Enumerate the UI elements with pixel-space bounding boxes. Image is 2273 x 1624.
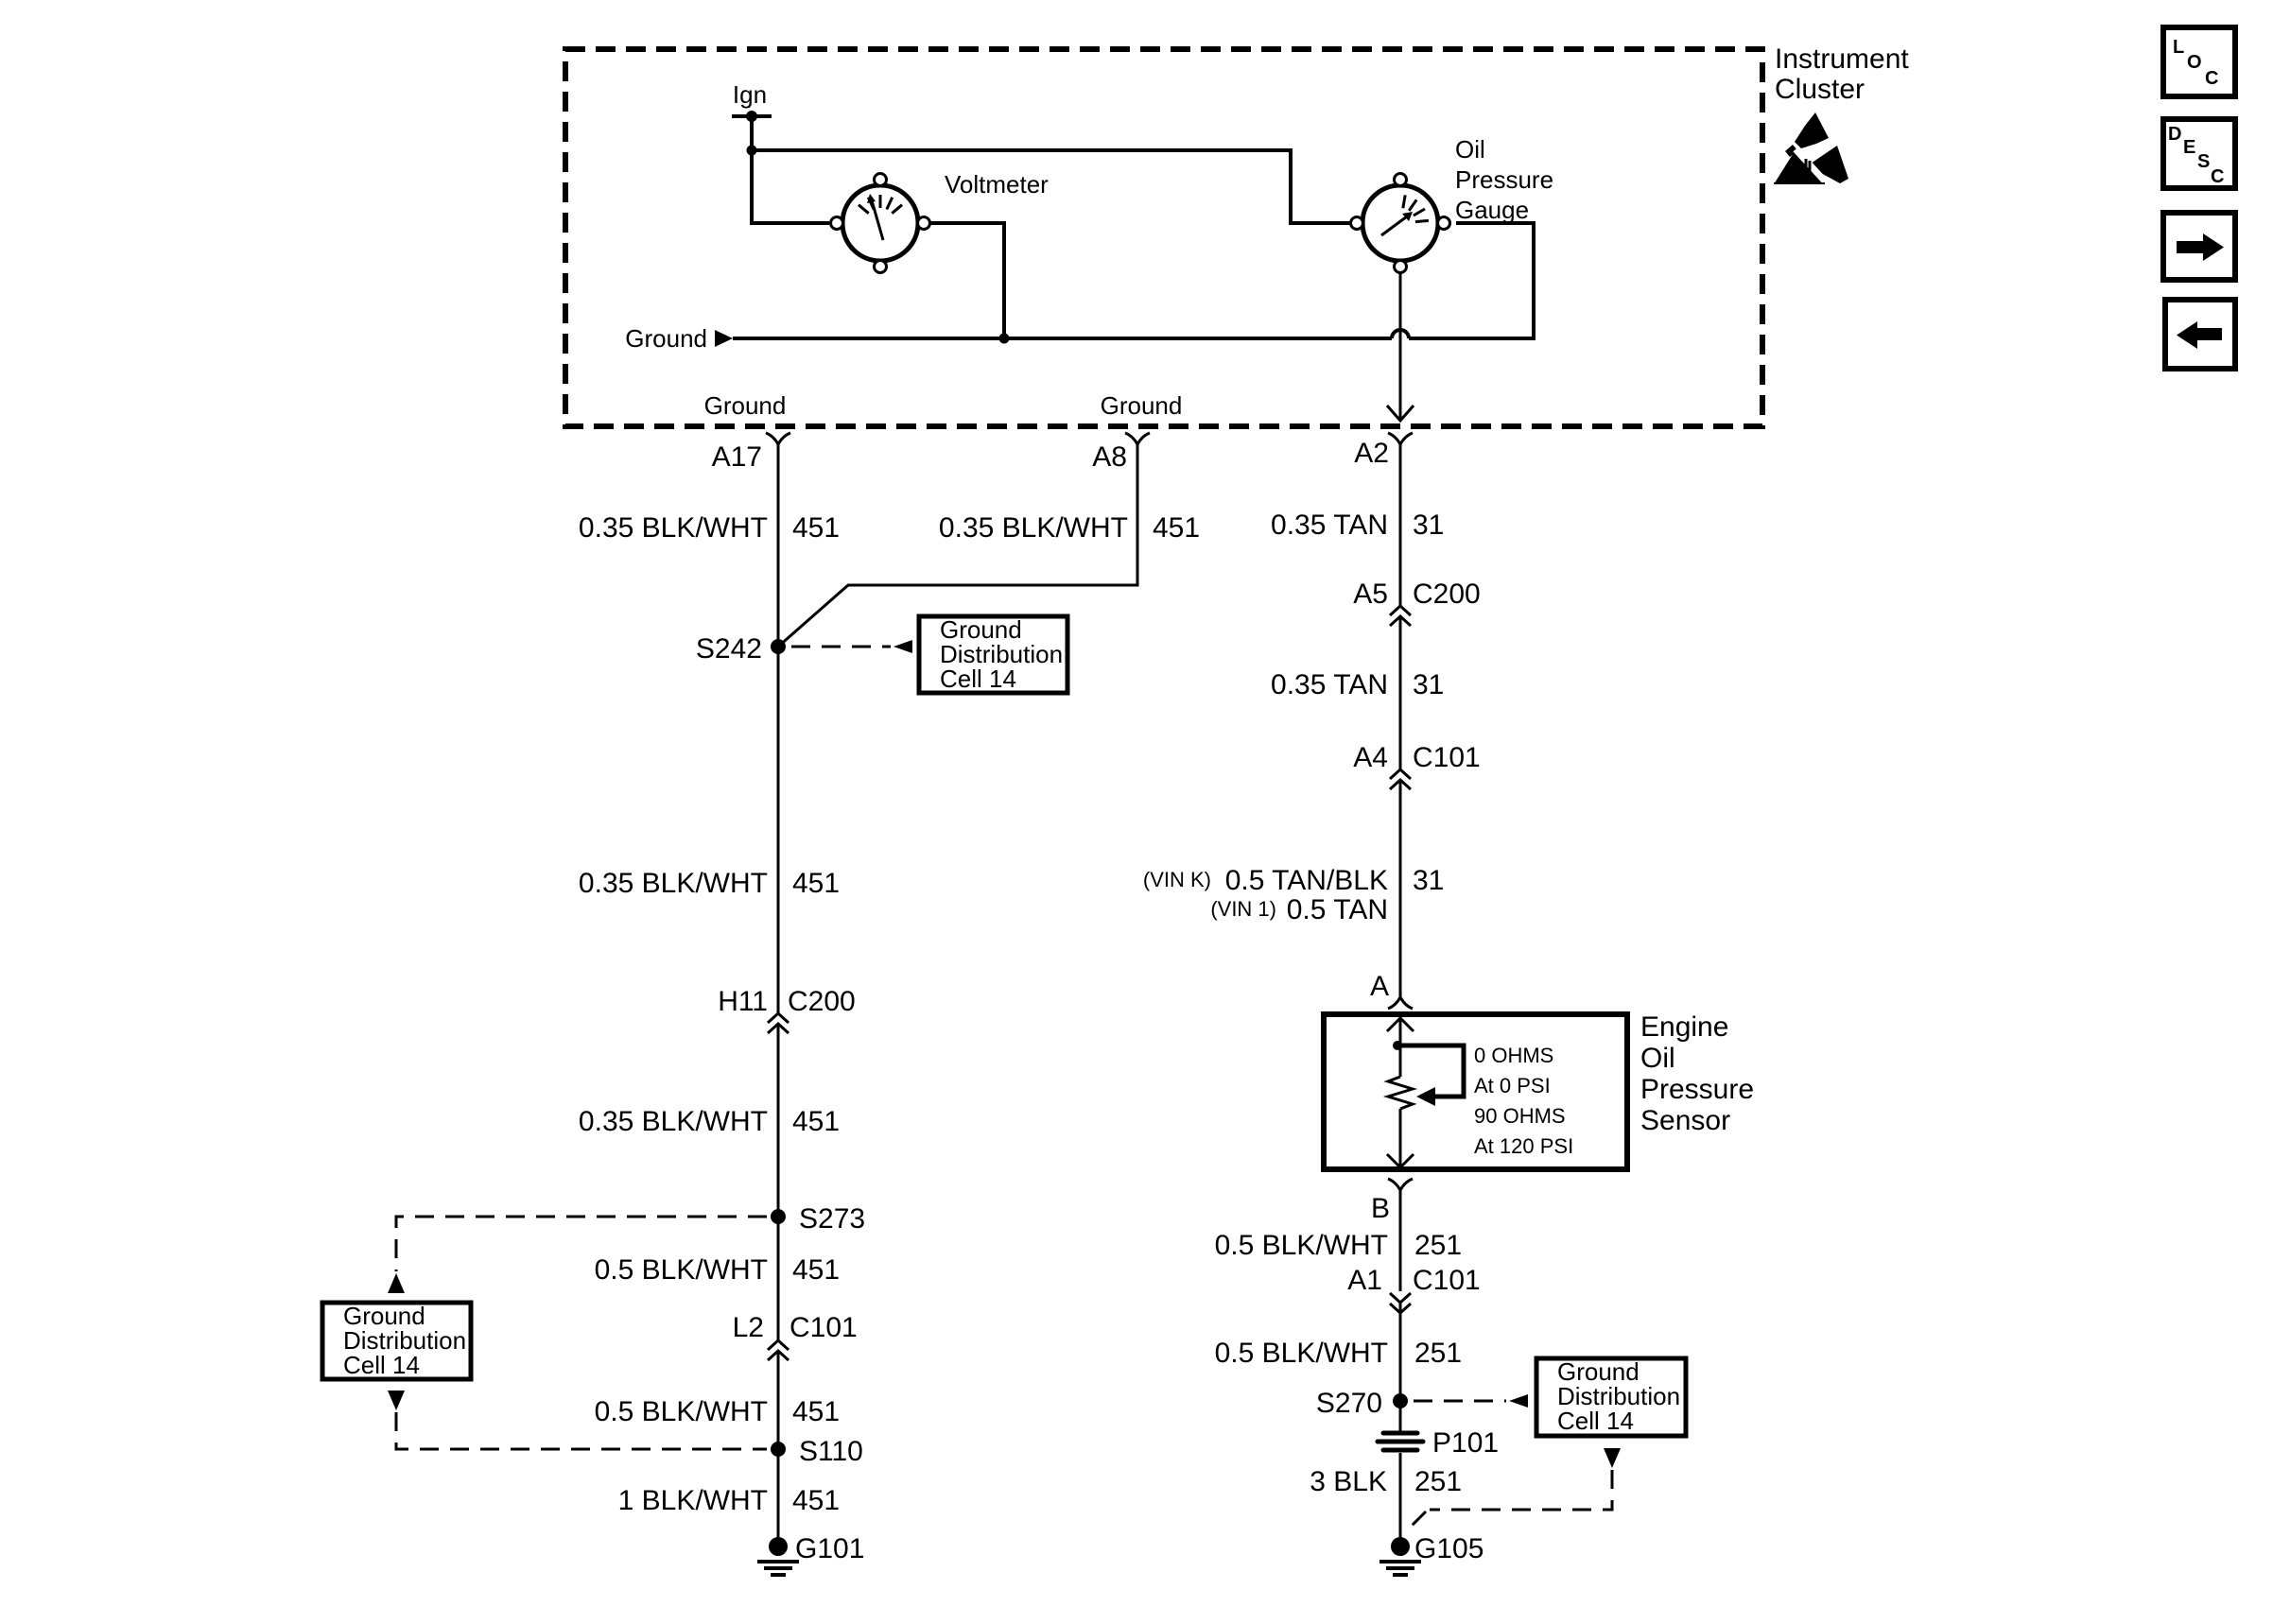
pin label H11 connector C200 [718,986,856,1017]
voltmeter label [945,170,1049,199]
svg-text:(VIN 1): (VIN 1) [1210,897,1276,921]
svg-text:L: L [2173,37,2184,58]
svg-text:S110: S110 [799,1436,863,1467]
wire oil gauge bottom terminal to A2 [1399,272,1402,420]
connector C101 chevrons (right upper) [1390,769,1411,789]
connector fork at sensor pin B (opens up) [1388,1179,1413,1190]
connector C101 chevrons (right lower, down) [1390,1293,1411,1313]
svg-text:Sensor: Sensor [1640,1105,1730,1136]
svg-text:Engine: Engine [1640,1011,1728,1043]
LOC reference box [2163,27,2235,96]
wire Ign stub down to junction [750,116,754,150]
wire label (VIN K) 0.5 TAN/BLK circuit 31 [1143,865,1445,896]
svg-text:Voltmeter: Voltmeter [945,170,1049,199]
wire ground bus to oil gauge right terminal [1409,223,1534,338]
splice S242 [696,633,786,665]
wire label 3 BLK circuit 251 [1310,1466,1462,1497]
svg-text:C: C [2205,68,2218,89]
pin label A1 connector C101 [1347,1265,1480,1296]
pin label A sensor [1370,971,1389,1002]
sensor resistance annotation [1474,1044,1573,1158]
svg-text:0.35 BLK/WHT: 0.35 BLK/WHT [579,868,768,899]
dashed reference arrow from S270 [1414,1394,1528,1408]
dashed reference path cell box to G105 [1406,1470,1612,1531]
svg-text:451: 451 [1153,512,1200,544]
svg-text:C200: C200 [788,986,856,1017]
pin label A8 [1092,441,1127,473]
connector C200 chevrons (right) [1390,606,1411,626]
svg-text:251: 251 [1414,1466,1462,1497]
dashed arrow up (left cell box) [388,1273,405,1293]
svg-text:0.5 TAN/BLK: 0.5 TAN/BLK [1225,865,1388,896]
svg-text:C101: C101 [1413,1265,1481,1296]
wire left column lower part [777,1353,780,1546]
dashed reference arrow from S242 [791,640,912,653]
next-page arrow box [2163,213,2235,280]
instrument cluster title [1775,43,1909,105]
wire right column from A2 to sensor [1399,444,1402,606]
ground G105 [1379,1533,1484,1575]
ground distribution cell 14 callout box (lower right) [1536,1357,1686,1436]
svg-text:At 0 PSI: At 0 PSI [1474,1074,1551,1097]
wire label 0.35 BLK/WHT circuit 451 (A8 lead) [939,512,1200,544]
node Ign terminal bar [732,111,772,122]
oil pressure gauge terminals [1351,174,1450,273]
svg-text:0.35 BLK/WHT: 0.35 BLK/WHT [579,1106,768,1137]
svg-text:Pressure: Pressure [1455,165,1553,194]
connector fork at sensor pin A (opens down) [1388,997,1413,1009]
wire voltmeter right terminal down to ground bus [929,223,1004,338]
svg-text:31: 31 [1413,865,1444,896]
engine oil pressure sensor box [1324,1014,1627,1169]
svg-text:0.35 TAN: 0.35 TAN [1271,510,1388,541]
sensor label [1640,1011,1754,1136]
svg-text:A17: A17 [712,441,762,473]
pass-through grommet P101 [1378,1433,1423,1450]
wire sensor B down to A1 C101 [1399,1187,1402,1291]
svg-text:C200: C200 [1413,579,1481,610]
svg-text:A8: A8 [1092,441,1127,473]
svg-text:451: 451 [792,1485,840,1516]
voltmeter body [842,185,918,261]
svg-text:Cell 14: Cell 14 [1557,1407,1634,1435]
wire label 0.35 TAN circuit 31 (row 1) [1271,510,1444,541]
node Ign label [733,80,767,109]
svg-text:Ground: Ground [625,324,707,353]
wire ground bus [733,337,1392,340]
svg-text:B: B [1371,1193,1390,1224]
wire label 1 BLK/WHT circuit 451 (row 6) [618,1485,840,1516]
svg-text:31: 31 [1413,510,1444,541]
pin label A4 connector C101 [1353,742,1480,773]
wire Ign feed down to voltmeter left terminal [752,150,829,223]
connector fork A17 [766,433,790,444]
node junction voltmeter ground [999,334,1010,344]
svg-text:Oil: Oil [1455,135,1485,164]
svg-text:451: 451 [792,868,840,899]
svg-text:C101: C101 [789,1312,858,1343]
wire right column segment 2 [1399,618,1402,769]
ESD sensitive device symbol [1774,112,1848,185]
node junction at Ign feed [747,146,757,156]
wire left column mid part [777,1026,780,1341]
ground distribution cell 14 callout box (left) [322,1302,471,1379]
svg-text:A: A [1370,971,1389,1002]
svg-text:D: D [2168,124,2181,145]
resistor R variable (sensor element) [1388,1077,1413,1109]
previous-page arrow box [2165,300,2235,369]
wire label 0.5 BLK/WHT circuit 451 (row 5) [595,1396,840,1427]
pin label B sensor [1371,1193,1390,1224]
svg-text:S242: S242 [696,633,762,665]
oil pressure gauge body [1362,185,1438,261]
splice S270 [1316,1388,1408,1419]
svg-text:G101: G101 [795,1533,864,1564]
svg-text:0.5 BLK/WHT: 0.5 BLK/WHT [1215,1230,1388,1261]
svg-text:(VIN K): (VIN K) [1143,868,1211,891]
svg-text:Instrument: Instrument [1775,43,1909,75]
svg-text:C101: C101 [1413,742,1481,773]
svg-text:S273: S273 [799,1203,865,1235]
svg-text:0.5 TAN: 0.5 TAN [1287,894,1388,925]
svg-text:0.35 BLK/WHT: 0.35 BLK/WHT [579,512,768,544]
wire A8 ground lead [778,444,1137,647]
grommet label P101 [1432,1427,1499,1459]
node Ground label above A8 [1101,391,1183,420]
svg-text:Cell 14: Cell 14 [343,1351,420,1379]
svg-text:Oil: Oil [1640,1043,1675,1074]
svg-text:A1: A1 [1347,1265,1382,1296]
svg-text:451: 451 [792,1396,840,1427]
svg-text:A4: A4 [1353,742,1388,773]
svg-text:S270: S270 [1316,1388,1382,1419]
wire resistor to sensor pin B with arrow [1387,1109,1414,1167]
wire label 0.5 BLK/WHT circuit 451 (row 4) [595,1254,840,1286]
svg-text:0.5 BLK/WHT: 0.5 BLK/WHT [595,1254,768,1286]
sensor wiper loop with arrow [1397,1045,1464,1106]
voltmeter needle [867,194,883,240]
wire label 0.35 BLK/WHT circuit 451 (row 2) [579,868,840,899]
wire label 0.5 BLK/WHT circuit 251 (row 2) [1215,1338,1462,1369]
svg-text:451: 451 [792,1254,840,1286]
wire label (VIN 1) 0.5 TAN [1210,894,1388,925]
svg-text:1 BLK/WHT: 1 BLK/WHT [618,1485,768,1516]
DESC reference box [2163,119,2235,188]
svg-text:O: O [2187,52,2202,73]
svg-text:Ground: Ground [704,391,787,420]
svg-text:Cell 14: Cell 14 [940,665,1016,693]
svg-text:0.5 BLK/WHT: 0.5 BLK/WHT [1215,1338,1388,1369]
voltmeter face ticks [859,195,902,214]
connector C101 chevrons (left) [768,1340,789,1360]
svg-text:E: E [2183,137,2195,158]
svg-text:H11: H11 [718,986,768,1017]
arrow into connector A2 [1387,406,1414,421]
svg-text:Cluster: Cluster [1775,74,1865,105]
wire right column lower [1399,1303,1402,1431]
svg-text:251: 251 [1414,1338,1462,1369]
svg-text:Ground: Ground [1101,391,1183,420]
node Ground label above A17 [704,391,787,420]
svg-text:P101: P101 [1432,1427,1499,1459]
svg-text:At 120 PSI: At 120 PSI [1474,1134,1573,1158]
svg-text:0.5 BLK/WHT: 0.5 BLK/WHT [595,1396,768,1427]
svg-text:31: 31 [1413,669,1444,700]
wire right column segment 3 [1399,782,1402,998]
svg-text:Pressure: Pressure [1640,1074,1754,1105]
pin label L2 connector C101 [733,1312,858,1343]
wire P101 to G105 [1399,1453,1402,1546]
oil pressure gauge face ticks [1403,195,1429,221]
wire label 0.35 BLK/WHT circuit 451 (row 3) [579,1106,840,1137]
node sensor wiper junction [1393,1041,1402,1050]
svg-text:C: C [2211,166,2224,187]
connector fork A2 [1388,433,1413,444]
oil pressure gauge needle [1381,212,1413,235]
pin label A5 connector C200 [1353,579,1480,610]
wire label 0.5 BLK/WHT circuit 251 (row 1) [1215,1230,1462,1261]
svg-text:0.35 BLK/WHT: 0.35 BLK/WHT [939,512,1128,544]
node Ground input label [625,324,707,353]
svg-text:90 OHMS: 90 OHMS [1474,1104,1566,1128]
svg-text:Ign: Ign [733,80,767,109]
pin label A2 [1354,438,1389,469]
wire A17 ground lead (left column) upper part [777,444,780,1014]
oil pressure gauge label [1455,135,1553,224]
splice S273 [771,1203,865,1235]
dashed reference path cell box to S110 [396,1412,767,1449]
wire Ign feed to oil pressure gauge (top run) [752,150,1350,223]
svg-text:3 BLK: 3 BLK [1310,1466,1387,1497]
svg-text:S: S [2197,151,2210,172]
arrow into sensor from pin A [1387,1017,1414,1077]
wire ground bus hop over gauge wire [1392,330,1409,338]
svg-text:Gauge: Gauge [1455,196,1529,224]
wire label 0.35 TAN circuit 31 (row 2) [1271,669,1444,700]
svg-text:451: 451 [792,1106,840,1137]
svg-text:L2: L2 [733,1312,764,1343]
ground G101 [757,1533,864,1575]
svg-text:0 OHMS: 0 OHMS [1474,1044,1553,1067]
node Ground input arrow [715,330,733,347]
dashed arrow down (left cell box) [388,1391,405,1410]
svg-text:0.35 TAN: 0.35 TAN [1271,669,1388,700]
svg-text:G105: G105 [1414,1533,1484,1564]
dashed arrow down (lower right cell box) [1604,1448,1621,1468]
wire label 0.35 BLK/WHT circuit 451 (row 1) [579,512,840,544]
pin label A17 [712,441,762,473]
splice S110 [771,1436,863,1467]
ground distribution cell 14 callout box (upper) [919,615,1067,693]
svg-text:A2: A2 [1354,438,1389,469]
svg-text:A5: A5 [1353,579,1388,610]
svg-text:451: 451 [792,512,840,544]
dashed reference path S273 to cell box (left) [396,1217,767,1271]
svg-text:251: 251 [1414,1230,1462,1261]
connector C200 chevrons (left) [768,1013,789,1033]
voltmeter terminals [831,174,930,273]
instrument cluster dashed boundary [565,49,1762,426]
connector fork A8 [1125,433,1150,444]
